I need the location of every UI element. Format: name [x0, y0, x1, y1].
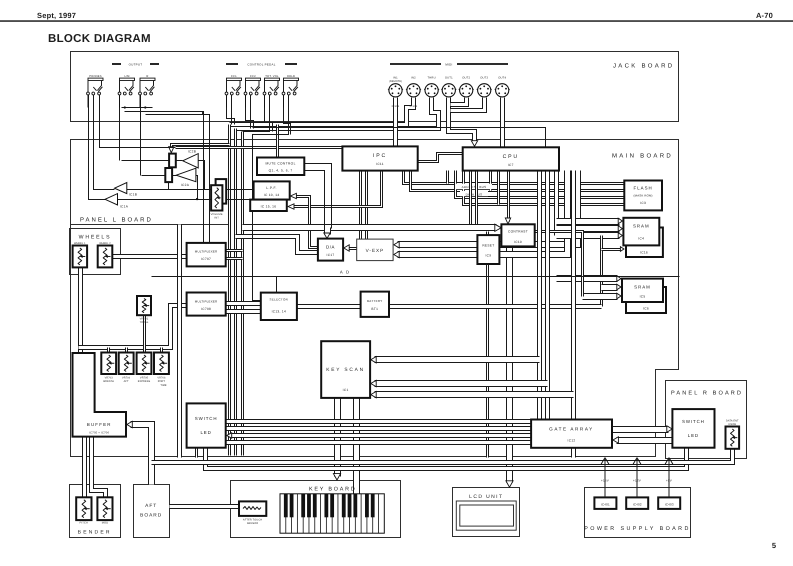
- wire V-EXP input row 2: [398, 171, 568, 255]
- potentiometer VR705 EXPRESS: [137, 353, 152, 375]
- wire buffer to AFT: [131, 425, 152, 485]
- svg-text:WHEEL 2: WHEEL 2: [99, 242, 111, 245]
- wire IPC to V-EXP a: [359, 171, 362, 240]
- CPU IC7: [463, 147, 559, 170]
- bender box outline: [70, 485, 121, 538]
- svg-text:BENDER: BENDER: [78, 530, 112, 536]
- svg-text:IC3: IC3: [640, 201, 646, 205]
- svg-text:PORT: PORT: [158, 380, 166, 383]
- svg-text:IC101: IC101: [392, 105, 400, 108]
- svg-text:IC 10, 14: IC 10, 14: [264, 193, 280, 197]
- wire MIDI OUT4 to CPU: [500, 98, 505, 148]
- wire jack switch wire b: [146, 115, 210, 251]
- svg-text:IC401: IC401: [601, 502, 610, 506]
- svg-text:WHEEL 1: WHEEL 1: [74, 242, 86, 245]
- svg-text:THRU: THRU: [427, 77, 435, 80]
- svg-text:LED: LED: [688, 433, 699, 438]
- wire switchled to gate row 3: [230, 433, 532, 438]
- svg-text:DATA ENT: DATA ENT: [726, 420, 739, 423]
- wire CPU stub to trunk e: [475, 171, 478, 227]
- svg-text:GATE ARRAY: GATE ARRAY: [549, 427, 594, 432]
- wire bottom trunk 1: [152, 449, 733, 463]
- svg-text:AFTER TOUCH: AFTER TOUCH: [243, 519, 262, 522]
- main board outline: [71, 140, 679, 457]
- svg-text:KEY BOARD: KEY BOARD: [309, 487, 357, 493]
- svg-text:+12V: +12V: [633, 479, 641, 483]
- wire SRAM select vertical: [600, 236, 603, 307]
- svg-text:OUTPUT: OUTPUT: [129, 63, 143, 67]
- wire switchled to gate row 4: [226, 440, 532, 445]
- wire CPU to gate array 1: [537, 171, 542, 420]
- svg-text:IC102: IC102: [410, 105, 418, 108]
- wire vertical trunk B: [234, 129, 237, 456]
- svg-text:VR705: VR705: [140, 377, 149, 380]
- wire TOT VOL sleeve wire: [265, 95, 273, 132]
- svg-text:CONTROL PEDAL: CONTROL PEDAL: [247, 63, 275, 67]
- svg-text:TIME: TIME: [160, 384, 167, 387]
- svg-text:IC13, 14: IC13, 14: [272, 310, 286, 314]
- wire IC2A input wire: [196, 176, 198, 200]
- SRAM IC5: [622, 279, 663, 302]
- wire MIDI THRU to trunk: [236, 98, 439, 129]
- wire CPU to gate array 2: [545, 171, 550, 420]
- svg-text:IC403: IC403: [665, 502, 674, 506]
- svg-text:Q1, 4, 5, 6, 7: Q1, 4, 5, 6, 7: [269, 169, 293, 173]
- wire MIDI IN1 to IPC: [393, 98, 398, 147]
- svg-text:IC7: IC7: [508, 163, 514, 167]
- jack L/M: [118, 78, 134, 107]
- wire bottom trunk 2: [206, 448, 687, 469]
- svg-text:BOARD: BOARD: [140, 513, 162, 519]
- svg-text:PITCH: PITCH: [80, 522, 89, 525]
- svg-text:VR702: VR702: [140, 318, 149, 321]
- wire phones tip wire: [89, 95, 106, 200]
- wire battery to SRAM backup: [390, 304, 602, 309]
- svg-text:Sept, 1997: Sept, 1997: [37, 11, 76, 20]
- svg-text:BREATH: BREATH: [103, 380, 114, 383]
- wire wheel1 to buffer: [78, 268, 83, 354]
- wire SRAM2 row 3: [583, 293, 618, 300]
- wire V-EXP to DA: [348, 247, 357, 250]
- svg-text:LED: LED: [200, 430, 211, 435]
- junction dot b: [124, 106, 126, 108]
- wire keyscan to keyboard a: [334, 398, 341, 477]
- svg-text:IC 15, 16: IC 15, 16: [261, 205, 277, 209]
- wire audio feed to R1: [172, 145, 230, 150]
- wire pot chain: [79, 306, 187, 348]
- svg-text:AFT: AFT: [145, 503, 157, 509]
- wire L/M jack wire: [119, 95, 121, 161]
- svg-text:IC17: IC17: [327, 253, 335, 257]
- wire TOT VOL wire: [243, 95, 270, 132]
- svg-text:FC1: FC1: [231, 75, 237, 78]
- LPF IC15 IC16: [250, 200, 287, 211]
- svg-text:WHEELS: WHEELS: [79, 235, 112, 241]
- after touch sensor: [239, 501, 266, 516]
- MIDI connector OUT3: [477, 84, 492, 97]
- svg-text:A D: A D: [340, 270, 350, 275]
- wire SRAM1 row 1: [557, 218, 620, 225]
- wire HOLD wire: [253, 95, 289, 301]
- wire CPU stub a: [446, 171, 449, 184]
- wire mult1 out a: [226, 249, 243, 252]
- svg-text:TOT. VOL: TOT. VOL: [265, 75, 279, 78]
- SRAM IC4: [623, 218, 659, 246]
- svg-text:IC16: IC16: [640, 251, 648, 255]
- wire gate to switchledR 2: [617, 437, 673, 444]
- wire gate to switchledR 1: [613, 426, 669, 433]
- svg-text:5: 5: [772, 541, 776, 550]
- LCD unit outline: [453, 488, 520, 537]
- svg-text:(REMOTE): (REMOTE): [389, 80, 402, 83]
- jack board outline: [71, 52, 679, 122]
- svg-text:(MASK ROM): (MASK ROM): [634, 194, 653, 198]
- svg-text:FC2: FC2: [250, 75, 256, 78]
- wire mute control top: [276, 125, 279, 158]
- wire switchled to gate row 1: [226, 419, 532, 424]
- wire R jack wire: [140, 95, 142, 176]
- wire IPC to CPU link: [418, 154, 463, 162]
- svg-text:IC6: IC6: [643, 307, 649, 311]
- potentiometer DATA ENT KNOB VR801: [726, 427, 740, 449]
- potentiometer MOD bender pot: [97, 497, 112, 520]
- potentiometer PITCH bender pot: [76, 497, 91, 520]
- wire MIDI IN2 to trunk: [230, 98, 414, 125]
- svg-text:V-EXP: V-EXP: [366, 248, 385, 253]
- svg-text:SRAM: SRAM: [634, 285, 651, 290]
- wire AFT to touch sensor: [170, 504, 240, 509]
- svg-text:KNOB: KNOB: [729, 423, 737, 426]
- header rule: [0, 20, 793, 22]
- op-amp IC1B: [115, 183, 127, 194]
- op-amp IC2B: [183, 154, 199, 168]
- wire IPC to LPF2 row: [292, 171, 382, 207]
- MIDI connector OUT1: [441, 84, 456, 97]
- MIDI connector IN1: [388, 84, 403, 97]
- D/A IC17: [318, 239, 343, 261]
- MIDI connector OUT2: [459, 84, 474, 97]
- V-EXP: [357, 239, 393, 261]
- svg-text:AFT: AFT: [124, 380, 129, 383]
- wire IC2B output wire: [122, 160, 183, 162]
- svg-text:IC2A: IC2A: [181, 183, 190, 187]
- wire mute wire b: [305, 171, 325, 229]
- svg-text:CONTRAST: CONTRAST: [508, 230, 528, 234]
- svg-text:LCD UNIT: LCD UNIT: [469, 494, 503, 500]
- wire selector to battery: [297, 304, 361, 309]
- svg-text:IC12: IC12: [568, 439, 576, 443]
- wire IC2B input wire: [199, 161, 205, 190]
- svg-text:MUTE CONTROL: MUTE CONTROL: [265, 162, 295, 166]
- svg-text:A-70: A-70: [756, 11, 773, 20]
- svg-text:D/A: D/A: [326, 245, 335, 250]
- svg-text:JACK BOARD: JACK BOARD: [613, 63, 674, 70]
- potentiometer VR706 PORT TIME: [154, 353, 169, 375]
- SRAM IC6 back box: [626, 287, 666, 313]
- svg-text:ADDRESS BUS: ADDRESS BUS: [462, 185, 487, 189]
- wire CONTRAST to SRAM wire: [535, 232, 583, 297]
- wire mult2 to selector b: [226, 309, 261, 314]
- wire buffer to mod bender: [92, 437, 106, 498]
- wire pot chain stub 1: [107, 348, 110, 353]
- MULTIPLEXER IC708: [187, 293, 226, 316]
- svg-text:POWER SUPPLY BOARD: POWER SUPPLY BOARD: [584, 526, 691, 532]
- BUFFER IC705 IC706: [73, 353, 127, 437]
- regulator IC401: [594, 497, 616, 509]
- wire SRAM2 row 2: [602, 284, 618, 291]
- svg-text:PHONES: PHONES: [89, 75, 102, 78]
- potentiometer VR703 BREATH: [101, 353, 116, 375]
- svg-text:IC4: IC4: [638, 237, 644, 241]
- wire A/D line: [152, 276, 680, 278]
- wire CPU stub c: [497, 171, 500, 205]
- wire LPF1 feed: [243, 189, 254, 191]
- wire jack link a: [122, 107, 153, 109]
- MIDI connector IN2: [406, 84, 421, 97]
- svg-text:PANEL R BOARD: PANEL R BOARD: [671, 391, 743, 397]
- KEY SCAN IC1: [321, 341, 370, 398]
- wire +5V rail: [665, 458, 673, 498]
- SRAM IC16 back box: [626, 228, 663, 258]
- svg-text:CPU: CPU: [503, 154, 519, 160]
- wire IC16 select stub: [602, 248, 622, 251]
- svg-text:IC1: IC1: [343, 388, 349, 392]
- wire bus row 4: [464, 171, 625, 205]
- wire MIDI OUT3 merge: [451, 98, 485, 111]
- wire FC1 sleeve wire: [227, 95, 235, 125]
- wheels box outline: [70, 229, 121, 275]
- potentiometer VR704 AFT: [119, 353, 134, 375]
- panel R board outline: [666, 381, 747, 459]
- wire buffer to pitch bender: [82, 437, 87, 498]
- wire SRAM2 row 1: [557, 275, 618, 282]
- svg-text:RESET: RESET: [482, 244, 494, 248]
- wire vertical trunk C: [241, 132, 244, 456]
- svg-text:IC402: IC402: [633, 502, 642, 506]
- svg-text:VR706: VR706: [157, 377, 166, 380]
- wire bus row 1: [404, 171, 625, 184]
- svg-text:BUFFER: BUFFER: [87, 422, 112, 427]
- GATE ARRAY IC12: [531, 420, 612, 448]
- op-amp supply resistor R2: [165, 168, 172, 182]
- svg-text:IPC: IPC: [373, 153, 387, 159]
- op-amp IC2A: [176, 168, 196, 182]
- wire switchled to gate row 2: [226, 426, 532, 431]
- jack PHONES: [87, 78, 103, 107]
- wire CPU to gate array 3: [571, 171, 576, 420]
- piano keyboard graphic: [280, 494, 384, 533]
- wire DA top branch: [324, 228, 331, 235]
- wire FC2 sleeve wire: [246, 95, 254, 129]
- label ADDRESS BUS: [456, 184, 492, 190]
- BATTERY BT1: [361, 292, 389, 317]
- wire keyscan row 3: [375, 391, 574, 398]
- svg-text:IC707: IC707: [201, 257, 211, 261]
- svg-text:IC2B: IC2B: [188, 149, 196, 153]
- wire LPF1 to DA: [294, 197, 318, 248]
- svg-text:IC19: IC19: [514, 240, 522, 244]
- svg-text:IC1A: IC1A: [120, 204, 129, 208]
- wire bus row 2: [411, 171, 625, 191]
- jack HOLD: [282, 78, 298, 107]
- svg-text:IC1B: IC1B: [129, 192, 137, 196]
- wire IPC to V-EXP b: [365, 171, 368, 240]
- svg-text:VOLUME: VOLUME: [211, 213, 223, 216]
- wire pot chain stub 3: [143, 316, 146, 353]
- wire FC2 wire: [250, 95, 252, 129]
- wire LPF out bus b: [118, 199, 243, 201]
- potentiometer VR702 TOTAL: [137, 296, 151, 315]
- svg-text:OUT4: OUT4: [498, 77, 506, 80]
- wire SRAM1 row 3: [557, 232, 620, 239]
- wire keyscan to keyboard b: [353, 398, 360, 494]
- power supply board outline: [585, 488, 691, 538]
- MIDI connector OUT4: [495, 84, 510, 97]
- volume pot back box: [216, 179, 227, 204]
- wire RESET down wire: [486, 265, 489, 458]
- wire trunk to DA input: [236, 237, 318, 253]
- svg-text:SRAM: SRAM: [633, 224, 650, 229]
- potentiometer WHEEL1: [73, 246, 88, 268]
- svg-text:EXPRESS: EXPRESS: [138, 380, 151, 383]
- jack FC1: [225, 78, 241, 107]
- wire gate array bottom stub: [571, 448, 576, 458]
- wire contrast trunk: [243, 224, 497, 231]
- junction dot c: [202, 112, 204, 114]
- svg-text:MIDI: MIDI: [445, 63, 452, 67]
- wire SRAM1 row 2: [557, 225, 620, 232]
- wire CPU to CONTRAST stub: [507, 171, 510, 222]
- svg-text:TOTAL: TOTAL: [140, 321, 149, 324]
- svg-text:OUT1: OUT1: [445, 77, 453, 80]
- svg-text:MOD: MOD: [102, 522, 109, 525]
- svg-text:BLOCK DIAGRAM: BLOCK DIAGRAM: [48, 33, 151, 45]
- RESET IC9: [477, 235, 499, 264]
- svg-text:FLASH: FLASH: [634, 186, 653, 191]
- regulator IC403: [658, 497, 680, 509]
- wire keyscan row 1: [375, 356, 540, 363]
- svg-text:MAIN BOARD: MAIN BOARD: [612, 153, 673, 160]
- MIDI connector THRU: [424, 84, 439, 97]
- wire R2 bottom wire: [168, 183, 170, 190]
- CONTRAST IC19: [501, 224, 534, 246]
- LCD window frame: [456, 501, 516, 530]
- wire audio feed to IPC: [176, 146, 343, 149]
- wire IC2A output wire: [142, 175, 177, 177]
- wire mult2 to selector a: [226, 301, 261, 306]
- svg-text:IN2: IN2: [411, 77, 416, 80]
- regulator IC402: [626, 497, 648, 509]
- wire pot chain stub 4: [160, 348, 163, 353]
- jack FC2: [244, 78, 260, 107]
- svg-text:+5V: +5V: [666, 479, 672, 483]
- svg-text:SELECTOR: SELECTOR: [270, 298, 289, 302]
- wire selector top wire: [276, 277, 278, 293]
- AFT board outline: [134, 485, 170, 538]
- IPC IC11: [342, 146, 417, 170]
- wire mute wire a: [305, 164, 332, 229]
- LPF IC10 IC14: [254, 181, 290, 199]
- svg-text:PANEL L BOARD: PANEL L BOARD: [80, 217, 153, 224]
- wire CONTRAST to LCD: [506, 247, 513, 483]
- panel L board outline: [71, 140, 231, 225]
- svg-text:KEY SCAN: KEY SCAN: [326, 367, 365, 373]
- svg-text:VR703: VR703: [105, 377, 114, 380]
- svg-text:IC5: IC5: [640, 295, 646, 299]
- svg-text:BATTERY: BATTERY: [367, 299, 383, 303]
- op-amp supply resistor R1: [169, 154, 176, 168]
- svg-text:IC705 + IC706: IC705 + IC706: [89, 432, 109, 435]
- svg-text:L/M: L/M: [124, 75, 130, 78]
- svg-text:IC11: IC11: [376, 162, 384, 166]
- wire phones ring wire: [94, 95, 115, 190]
- wire +15V rail: [601, 458, 609, 498]
- wire RESET stub up: [486, 232, 489, 236]
- wire switchledL down a: [195, 448, 198, 458]
- wire FC1 wire: [231, 95, 233, 125]
- SWITCH LED panel L: [187, 403, 226, 447]
- wire LPF2 feed: [243, 199, 251, 201]
- SELECTOR IC13 IC14: [261, 293, 297, 320]
- svg-text:IC9: IC9: [485, 254, 491, 258]
- wire HOLD sleeve wire: [284, 95, 291, 135]
- key board outline: [231, 481, 401, 538]
- SWITCH LED panel R: [672, 409, 714, 448]
- wire vertical trunk A: [228, 125, 231, 456]
- svg-text:OUT2: OUT2: [462, 77, 470, 80]
- potentiometer VOLUME INT: [211, 185, 222, 210]
- svg-text:BT1: BT1: [371, 307, 378, 311]
- wire keyscan row 2: [375, 380, 548, 387]
- potentiometer WHEEL2: [98, 246, 113, 268]
- wire CPU stub to trunk d: [469, 171, 472, 227]
- wire MIDI OUT2 merge: [451, 98, 467, 105]
- wire jack switch wire a: [125, 112, 204, 251]
- svg-text:MULTIPLEXER: MULTIPLEXER: [195, 250, 218, 254]
- wire mult1 out b: [226, 257, 243, 260]
- wire MIDI OUT1 to CPU: [449, 98, 475, 142]
- junction dot a: [196, 198, 198, 200]
- wire panel L down trunk: [177, 225, 182, 458]
- jack TOT. VOL: [263, 78, 279, 107]
- svg-text:HOLD: HOLD: [287, 75, 295, 78]
- svg-text:SWITCH: SWITCH: [682, 419, 705, 424]
- svg-text:IN1: IN1: [393, 77, 398, 80]
- wire pedal to CPU wire: [253, 128, 546, 148]
- svg-text:L.P.F.: L.P.F.: [266, 186, 277, 190]
- wire CPU stub b: [489, 171, 492, 191]
- svg-text:SWITCH: SWITCH: [195, 416, 218, 421]
- svg-text:OUT3: OUT3: [480, 77, 488, 80]
- svg-text:R: R: [146, 75, 148, 78]
- wire SRAM1 source vertical: [554, 171, 559, 236]
- svg-text:VR704: VR704: [122, 377, 131, 380]
- FLASH MASK ROM IC3: [624, 181, 662, 211]
- wire wheel2 to mult1: [113, 254, 187, 259]
- op-amp IC1A: [105, 194, 118, 205]
- wire LPF out bus a: [127, 189, 243, 191]
- MULTIPLEXER IC707: [187, 243, 226, 267]
- wire pot chain stub 2: [125, 348, 128, 353]
- wire V-EXP input row 1: [398, 171, 578, 245]
- wire bus row 3: [456, 171, 625, 198]
- svg-text:SENSOR: SENSOR: [247, 522, 259, 525]
- jack R: [139, 78, 155, 107]
- svg-text:IC708: IC708: [201, 307, 211, 311]
- svg-text:+15V: +15V: [601, 479, 609, 483]
- svg-text:DATA BUS: DATA BUS: [466, 192, 483, 196]
- label DATA BUS: [460, 191, 488, 197]
